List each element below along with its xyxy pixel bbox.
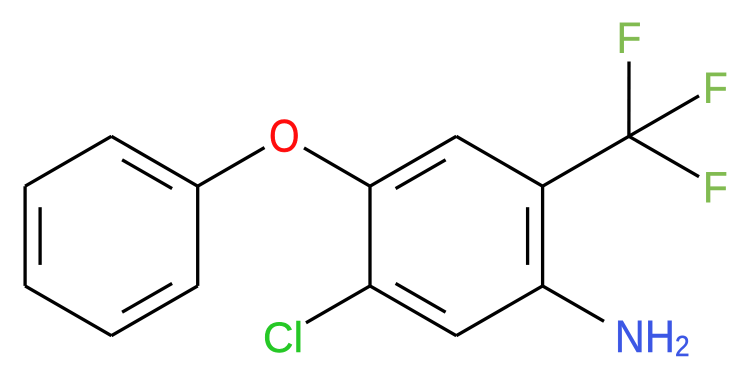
svg-text:F: F bbox=[703, 162, 728, 211]
svg-text:O: O bbox=[269, 111, 300, 161]
svg-text:Cl: Cl bbox=[263, 314, 303, 361]
svg-text:F: F bbox=[617, 13, 642, 62]
svg-text:F: F bbox=[703, 63, 728, 112]
